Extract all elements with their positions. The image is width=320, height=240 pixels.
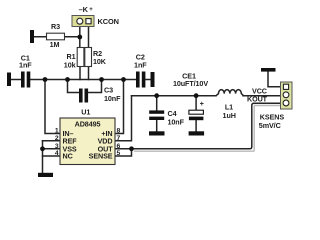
wire: bar to R3 <box>32 36 47 38</box>
svg-text:10nF: 10nF <box>168 118 185 127</box>
resistor R1 <box>77 48 84 67</box>
ground (CE1) <box>189 131 205 135</box>
wire: R2 bottom to rail <box>88 67 90 80</box>
wire: CE1 top lead <box>195 96 197 111</box>
svg-text:10K: 10K <box>93 57 107 66</box>
resistor R3 <box>47 33 65 40</box>
wire shadow: OUT loop shadow <box>134 106 281 152</box>
wire: input rail C1 to C2 <box>31 79 136 81</box>
capacitor C1 <box>21 72 25 88</box>
wire: KCON pin2 down to R2 <box>88 27 90 48</box>
KSENS pin 1 (square) <box>283 84 288 89</box>
svg-text:10k: 10k <box>64 60 76 69</box>
wire: C3 left stub <box>68 80 80 93</box>
KSENS pin 2 (round) <box>283 92 289 98</box>
wire: pin 5 stub up to OUT node <box>115 149 132 156</box>
svg-text:R3: R3 <box>51 22 60 31</box>
wire: pin 6 stub <box>115 148 132 150</box>
wire: R3 to node K- <box>65 36 80 38</box>
KCON pin 2 (square) <box>86 19 91 24</box>
svg-text:3: 3 <box>55 143 59 150</box>
svg-text:10nF: 10nF <box>104 94 121 103</box>
svg-text:1nF: 1nF <box>134 60 147 69</box>
wire: supply bar down to KSENS pin 1 <box>268 72 281 87</box>
node A dot <box>43 77 48 82</box>
wire: node A riser to pin 1 <box>45 80 60 134</box>
wire: pins 2-4 down to ground <box>42 141 44 173</box>
svg-text:NC: NC <box>63 152 73 161</box>
wire: KCON pin1 down to R1 <box>79 27 81 48</box>
op-amp U1 AD8495 <box>60 118 115 165</box>
wire: C4 top lead <box>156 96 158 111</box>
wire: pin 7 stub and riser to VDD rail <box>115 96 132 141</box>
node D dot (pin8 riser) <box>121 77 126 82</box>
svg-text:–K: –K <box>79 5 89 14</box>
node VSS junction dot <box>40 146 45 151</box>
svg-text:2: 2 <box>55 135 59 142</box>
connector KSENS <box>281 82 293 109</box>
svg-text:1nF: 1nF <box>19 61 32 70</box>
svg-text:U1: U1 <box>81 108 90 117</box>
wire: CE1 bottom lead <box>195 120 197 131</box>
svg-text:5: 5 <box>117 150 121 157</box>
KSENS pin 3 (round) <box>283 100 289 106</box>
svg-text:KCON: KCON <box>98 17 119 26</box>
capacitor C3 <box>79 89 83 103</box>
node K- junction dot <box>77 35 82 40</box>
wire: C2 to right bar <box>146 79 151 81</box>
svg-text:+: + <box>200 101 204 108</box>
wire: rail riser to pin 8 <box>115 80 124 134</box>
node C dot (C3 right) <box>99 77 104 82</box>
capacitor C4 <box>149 110 164 113</box>
svg-text:6: 6 <box>117 143 121 150</box>
wire: left bar to C1 <box>11 79 21 81</box>
svg-text:5mV/C: 5mV/C <box>259 121 281 130</box>
svg-text:1uH: 1uH <box>223 111 236 120</box>
inductor L1 <box>216 90 244 96</box>
terminal bar (R3 left) <box>30 30 34 43</box>
capacitor C2 <box>136 72 140 88</box>
svg-text:7: 7 <box>117 135 121 142</box>
svg-text:KOUT: KOUT <box>247 95 268 104</box>
wire: pin 2 stub <box>43 140 61 142</box>
wire: VDD rail left of L1 <box>132 95 217 97</box>
wire: C3 right stub <box>88 80 101 93</box>
svg-text:10uFT/10V: 10uFT/10V <box>173 79 208 88</box>
terminal bar (C2 right) <box>151 72 155 87</box>
svg-text:AD8495: AD8495 <box>75 119 101 128</box>
wire: pin 3 stub <box>43 148 61 150</box>
resistor R2 <box>85 48 92 67</box>
svg-text:1: 1 <box>55 128 59 135</box>
node VDD-CE1 dot <box>194 93 199 98</box>
wire: pin 4 stub <box>43 155 61 157</box>
wire: VDD rail right of L1 to VCC pin <box>243 95 281 97</box>
supply bar (above KSENS) <box>261 68 276 72</box>
wire: C4 bottom lead <box>156 120 158 131</box>
ground (IC) <box>38 173 53 177</box>
terminal bar (C1 left) <box>7 73 11 87</box>
node OUT junction dot <box>129 146 134 151</box>
node VDD-C4 dot <box>154 93 159 98</box>
wire: R1 bottom to rail <box>79 67 81 80</box>
svg-text:1M: 1M <box>50 40 60 49</box>
connector KCON <box>72 16 94 27</box>
wire: OUT loop from pins 5/6 to KOUT pin <box>132 103 281 149</box>
ground (C4) <box>149 131 165 135</box>
svg-text:8: 8 <box>117 128 121 135</box>
node B dot (C3 left) <box>65 77 70 82</box>
svg-text:SENSE: SENSE <box>89 152 113 161</box>
svg-text:4: 4 <box>55 150 59 157</box>
KCON pin 1 (round) <box>77 18 83 24</box>
svg-text:+: + <box>89 7 93 13</box>
